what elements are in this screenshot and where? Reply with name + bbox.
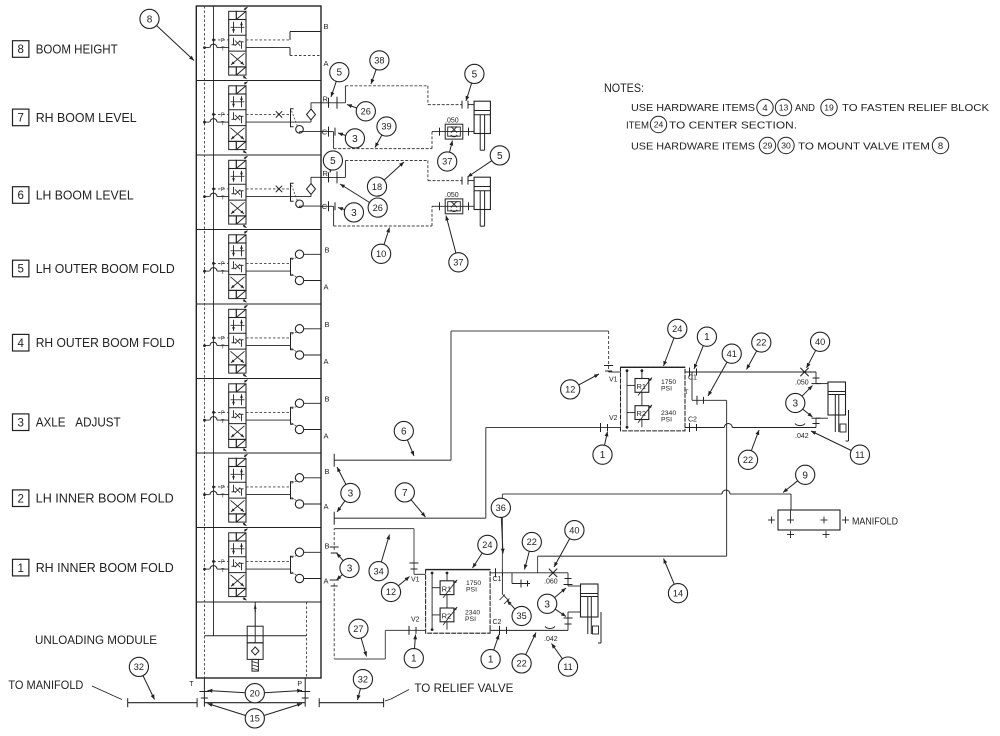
svg-text:P: P bbox=[297, 681, 302, 688]
svg-text:3: 3 bbox=[347, 564, 353, 575]
svg-text:3: 3 bbox=[544, 599, 550, 610]
svg-text:40: 40 bbox=[815, 337, 825, 347]
svg-text:30: 30 bbox=[781, 141, 791, 151]
svg-text:5: 5 bbox=[472, 69, 478, 80]
svg-text:41: 41 bbox=[727, 349, 737, 359]
svg-text:32: 32 bbox=[358, 674, 368, 684]
svg-text:B: B bbox=[325, 394, 330, 403]
svg-text:NOTES:: NOTES: bbox=[604, 83, 644, 95]
svg-text:24: 24 bbox=[482, 540, 492, 550]
svg-text:T: T bbox=[189, 681, 194, 688]
svg-text:.050: .050 bbox=[445, 192, 459, 199]
svg-text:.050: .050 bbox=[795, 380, 809, 387]
svg-text:3: 3 bbox=[793, 399, 799, 410]
svg-text:A: A bbox=[324, 283, 329, 292]
svg-text:37: 37 bbox=[442, 157, 452, 167]
svg-text:11: 11 bbox=[563, 662, 573, 672]
svg-text:.042: .042 bbox=[544, 636, 558, 643]
svg-text:12: 12 bbox=[386, 587, 396, 597]
svg-text:TO MOUNT VALVE ITEM: TO MOUNT VALVE ITEM bbox=[798, 141, 930, 153]
svg-text:7: 7 bbox=[17, 113, 23, 125]
svg-text:36: 36 bbox=[496, 503, 506, 513]
svg-text:3: 3 bbox=[348, 489, 354, 500]
svg-text:6: 6 bbox=[17, 190, 23, 202]
svg-text:1: 1 bbox=[600, 450, 606, 461]
svg-text:P: P bbox=[221, 559, 225, 565]
svg-text:24: 24 bbox=[672, 324, 682, 334]
svg-text:R2: R2 bbox=[637, 409, 647, 418]
svg-text:V1: V1 bbox=[609, 377, 618, 384]
svg-text:A: A bbox=[324, 577, 329, 586]
svg-text:B: B bbox=[325, 320, 330, 329]
svg-text:26: 26 bbox=[361, 107, 371, 117]
svg-text:R1: R1 bbox=[637, 382, 647, 391]
svg-text:LH INNER BOOM FOLD: LH INNER BOOM FOLD bbox=[36, 492, 174, 506]
svg-text:R1: R1 bbox=[442, 584, 452, 593]
svg-text:A: A bbox=[324, 432, 329, 441]
svg-text:1: 1 bbox=[488, 655, 494, 666]
svg-text:V2: V2 bbox=[609, 415, 618, 422]
svg-text:29: 29 bbox=[763, 141, 773, 151]
svg-text:ITEM: ITEM bbox=[626, 120, 649, 132]
svg-text:B: B bbox=[324, 22, 329, 31]
svg-text:R: R bbox=[323, 94, 329, 103]
svg-text:5: 5 bbox=[17, 264, 23, 276]
svg-text:C2: C2 bbox=[493, 619, 502, 626]
svg-text:26: 26 bbox=[373, 203, 383, 213]
svg-text:C2: C2 bbox=[688, 417, 697, 424]
svg-text:8: 8 bbox=[938, 141, 943, 152]
svg-text:LH BOOM LEVEL: LH BOOM LEVEL bbox=[36, 189, 134, 203]
svg-text:22: 22 bbox=[756, 338, 766, 348]
svg-text:3: 3 bbox=[352, 134, 358, 145]
svg-text:PSI: PSI bbox=[661, 386, 672, 393]
svg-text:R2: R2 bbox=[442, 612, 452, 621]
svg-text:TO RELIEF VALVE: TO RELIEF VALVE bbox=[414, 681, 513, 695]
svg-text:UNLOADING MODULE: UNLOADING MODULE bbox=[35, 633, 157, 647]
svg-text:9: 9 bbox=[802, 470, 808, 481]
svg-text:3: 3 bbox=[17, 417, 23, 429]
svg-text:39: 39 bbox=[381, 122, 391, 132]
svg-text:4: 4 bbox=[17, 338, 24, 350]
svg-text:24: 24 bbox=[654, 120, 664, 130]
svg-text:MANIFOLD: MANIFOLD bbox=[852, 517, 898, 528]
svg-text:B: B bbox=[325, 541, 330, 550]
svg-text:A: A bbox=[324, 357, 329, 366]
svg-text:22: 22 bbox=[516, 659, 526, 669]
svg-text:B: B bbox=[325, 245, 330, 254]
svg-text:P: P bbox=[221, 485, 225, 491]
svg-text:TO CENTER SECTION.: TO CENTER SECTION. bbox=[669, 120, 797, 132]
svg-text:P: P bbox=[221, 112, 225, 118]
svg-text:13: 13 bbox=[779, 103, 789, 113]
svg-text:37: 37 bbox=[453, 258, 463, 268]
svg-text:6: 6 bbox=[401, 427, 407, 438]
svg-text:PSI: PSI bbox=[466, 587, 477, 594]
svg-text:35: 35 bbox=[516, 611, 526, 621]
svg-text:A: A bbox=[324, 59, 329, 68]
svg-text:7: 7 bbox=[402, 488, 408, 499]
svg-text:10: 10 bbox=[376, 249, 386, 259]
svg-text:P: P bbox=[221, 38, 225, 44]
svg-text:R: R bbox=[323, 169, 329, 178]
svg-text:TO MANIFOLD: TO MANIFOLD bbox=[8, 678, 83, 692]
svg-text:.042: .042 bbox=[795, 433, 809, 440]
svg-text:TO FASTEN RELIEF BLOCK: TO FASTEN RELIEF BLOCK bbox=[842, 102, 989, 114]
svg-text:5: 5 bbox=[330, 156, 336, 167]
svg-text:12: 12 bbox=[565, 385, 575, 395]
svg-text:38: 38 bbox=[374, 56, 384, 66]
svg-text:B: B bbox=[325, 467, 330, 476]
svg-text:27: 27 bbox=[353, 624, 363, 634]
svg-text:1: 1 bbox=[17, 563, 23, 575]
svg-text:P: P bbox=[221, 336, 225, 342]
svg-text:40: 40 bbox=[569, 525, 579, 535]
svg-text:3: 3 bbox=[351, 208, 357, 219]
svg-text:5: 5 bbox=[497, 151, 503, 162]
svg-text:19: 19 bbox=[824, 103, 834, 113]
svg-text:T: T bbox=[685, 389, 689, 396]
svg-text:34: 34 bbox=[373, 566, 383, 576]
svg-text:P: P bbox=[221, 410, 225, 416]
svg-text:18: 18 bbox=[372, 182, 382, 192]
svg-text:22: 22 bbox=[743, 455, 753, 465]
svg-text:V1: V1 bbox=[411, 577, 420, 584]
svg-text:AXLE ADJUST: AXLE ADJUST bbox=[36, 416, 121, 430]
svg-text:RH INNER BOOM FOLD: RH INNER BOOM FOLD bbox=[36, 561, 174, 575]
svg-text:20: 20 bbox=[250, 688, 260, 698]
svg-text:22: 22 bbox=[527, 537, 537, 547]
svg-text:32: 32 bbox=[134, 662, 144, 672]
svg-text:14: 14 bbox=[673, 588, 683, 598]
svg-text:RH OUTER BOOM FOLD: RH OUTER BOOM FOLD bbox=[36, 336, 175, 350]
svg-text:1: 1 bbox=[704, 332, 710, 343]
svg-text:PSI: PSI bbox=[661, 417, 672, 424]
svg-text:USE HARDWARE ITEMS: USE HARDWARE ITEMS bbox=[631, 102, 755, 114]
svg-text:.060: .060 bbox=[544, 579, 558, 586]
svg-text:5: 5 bbox=[337, 68, 343, 79]
svg-text:LH OUTER BOOM FOLD: LH OUTER BOOM FOLD bbox=[36, 262, 175, 276]
svg-text:RH BOOM LEVEL: RH BOOM LEVEL bbox=[36, 111, 137, 125]
svg-text:BOOM HEIGHT: BOOM HEIGHT bbox=[36, 43, 118, 57]
svg-text:C: C bbox=[322, 128, 328, 137]
svg-text:8: 8 bbox=[17, 44, 23, 56]
svg-text:.050: .050 bbox=[445, 118, 459, 125]
svg-text:1: 1 bbox=[411, 654, 417, 665]
svg-text:P: P bbox=[221, 261, 225, 267]
svg-text:PSI: PSI bbox=[465, 616, 476, 623]
svg-text:V2: V2 bbox=[411, 617, 420, 624]
svg-text:USE HARDWARE ITEMS: USE HARDWARE ITEMS bbox=[631, 141, 755, 153]
svg-text:P: P bbox=[221, 187, 225, 193]
svg-text:C1: C1 bbox=[688, 375, 697, 382]
svg-text:4: 4 bbox=[762, 103, 767, 114]
svg-text:2: 2 bbox=[17, 493, 23, 505]
svg-text:8: 8 bbox=[147, 14, 153, 25]
svg-text:C1: C1 bbox=[493, 576, 502, 583]
svg-text:15: 15 bbox=[250, 714, 260, 724]
svg-text:AND: AND bbox=[795, 102, 815, 114]
svg-text:11: 11 bbox=[855, 450, 865, 460]
svg-text:A: A bbox=[324, 502, 329, 511]
